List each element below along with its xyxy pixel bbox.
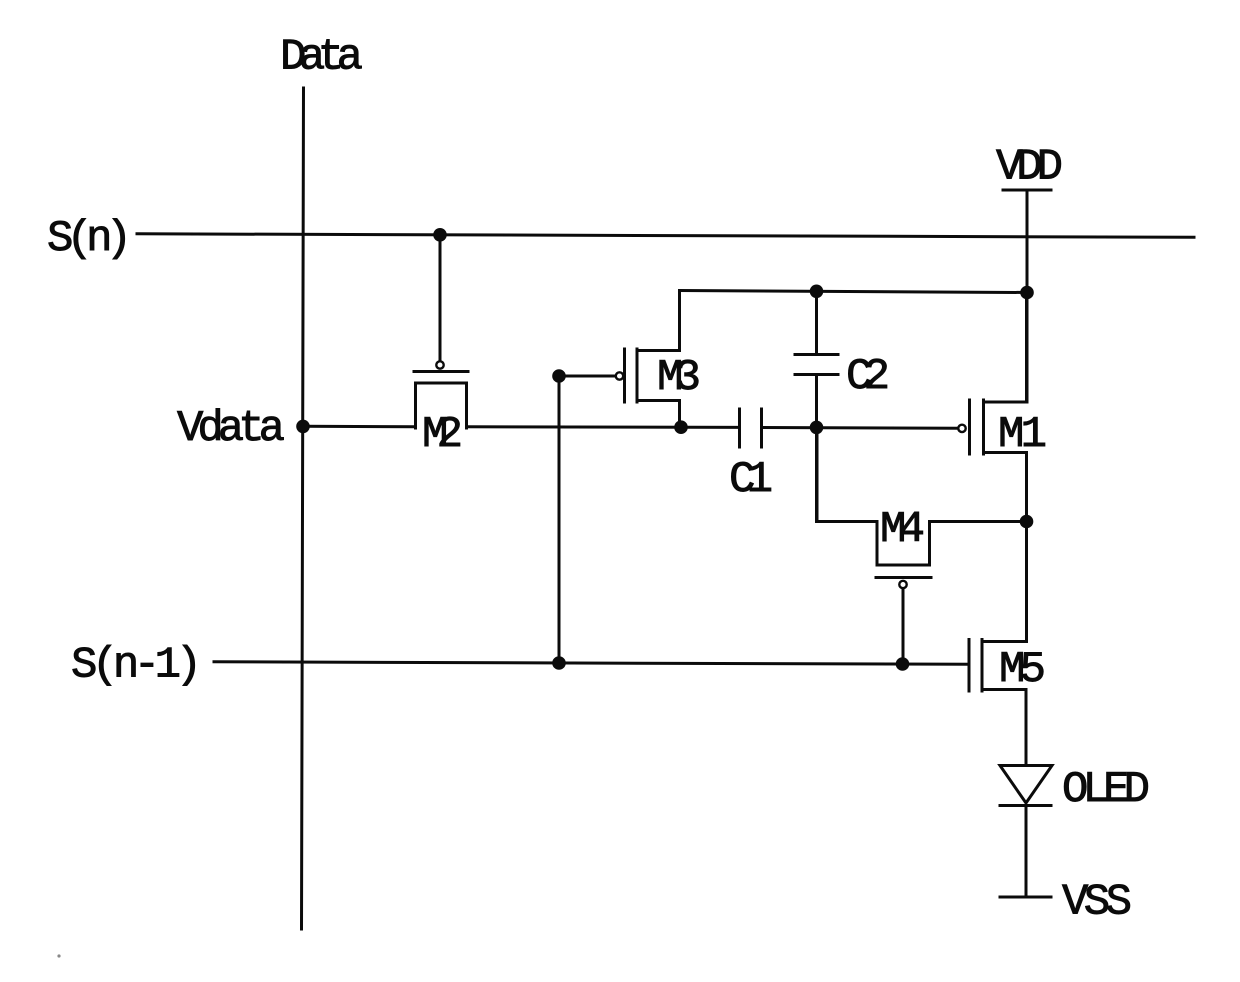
wire OLED cathode to VSS [1025,806,1028,898]
junction dot top rail / C2 [810,285,824,299]
svg-text:VDD: VDD [996,143,1063,193]
svg-text:S(n): S(n) [47,214,132,264]
capacitor C2 top plate [795,353,838,356]
svg-text:Data: Data [280,33,363,83]
svg-text:M1: M1 [998,410,1047,460]
junction dot S(n)/M2 gate [433,228,447,242]
wire M2 gate from S(n) [439,235,442,360]
transistor M5 gate bar [968,640,971,692]
transistor M5 drain arm up [982,522,1027,642]
transistor M3 source arm to C1 node [637,401,680,428]
transistor M1 channel [982,400,985,454]
junction dot M3 gate node / S(n-1) [552,656,566,670]
transistor M4 source wire from C-node [817,427,877,522]
svg-text:M2: M2 [422,410,463,460]
power VDD terminal bar [1003,189,1051,192]
wire C1 node down to M4 source [815,427,818,522]
svg-text:Vdata: Vdata [177,404,285,454]
transistor M4 gate wire to S(n-1) [902,589,905,663]
transistor M1 source arm down [984,453,1027,522]
transistor M2 channel [416,383,467,428]
wire Vdata row: Data line to M2 source [303,425,416,428]
capacitor C1 right plate [760,409,763,447]
power VSS terminal bar [1000,896,1051,899]
wire S(n) scan line [137,234,1194,238]
transistor M2 gate bar [414,370,468,373]
capacitor C1 left plate [738,409,741,447]
svg-text:S(n-1): S(n-1) [71,641,202,691]
bubble M3 gate [616,372,623,379]
junction dot M3 source / C1 [674,420,688,434]
transistor M5 source arm down [982,690,1026,766]
wire VDD column [1026,190,1029,402]
transistor M4 channel U shape [877,522,930,566]
wire M5 source down to OLED anode [1025,690,1028,766]
bubble M4 gate [899,581,906,588]
bubble M1 gate [958,425,965,432]
transistor M1 gate bar [968,400,971,454]
diode OLED cathode bar [1000,804,1051,807]
junction dot C1/C2 node [810,421,824,435]
wire M3 gate node vertical down to S(n-1) [558,376,561,663]
wire Data vertical line [302,88,304,929]
wire C1 right plate to M1 gate [762,426,959,430]
wire M3 gate node to gate bubble [559,375,615,378]
transistor M4 drain wire to right column [930,520,1027,523]
transistor M3 drain arm to top rail [637,292,680,351]
bubble M2 gate [436,361,443,368]
wire S(n-1) scan line [214,662,969,665]
junction dot M4 gate / S(n-1) [896,657,910,671]
diode OLED triangle [1000,766,1052,804]
wire top rail M3 drain to VDD column [680,291,1028,293]
svg-text:M5: M5 [999,645,1046,695]
capacitor C2 bottom plate [795,373,838,376]
junction dot M4 drain / M1 source [1020,515,1034,529]
transistor M4 gate bar [876,576,931,579]
wire M1 drain to M4/M5 node [1025,453,1028,522]
wire C2 bottom plate to C1 node [815,375,818,428]
svg-text:M4: M4 [880,505,925,555]
junction dot M3 gate node [552,369,566,383]
wire M2 drain to C1 left plate [467,425,740,429]
transistor M1 drain arm to VDD column [984,292,1027,402]
svg-text:OLED: OLED [1062,765,1150,815]
junction dot Vdata/Data [296,420,310,434]
transistor M3 gate bar [623,349,626,402]
wire M4/M5 node down to M5 drain [1025,522,1028,642]
svg-text:C2: C2 [846,352,890,402]
svg-text:C1: C1 [729,455,773,505]
transistor M3 channel [636,349,639,402]
wire C2 node down through Vdata row to M4 [815,291,818,354]
transistor M5 channel [981,640,984,692]
svg-text:VSS: VSS [1062,878,1132,928]
junction dot VDD column / top rail [1020,286,1034,300]
svg-text:M3: M3 [657,353,701,403]
speck artifact bottom left [57,954,60,957]
